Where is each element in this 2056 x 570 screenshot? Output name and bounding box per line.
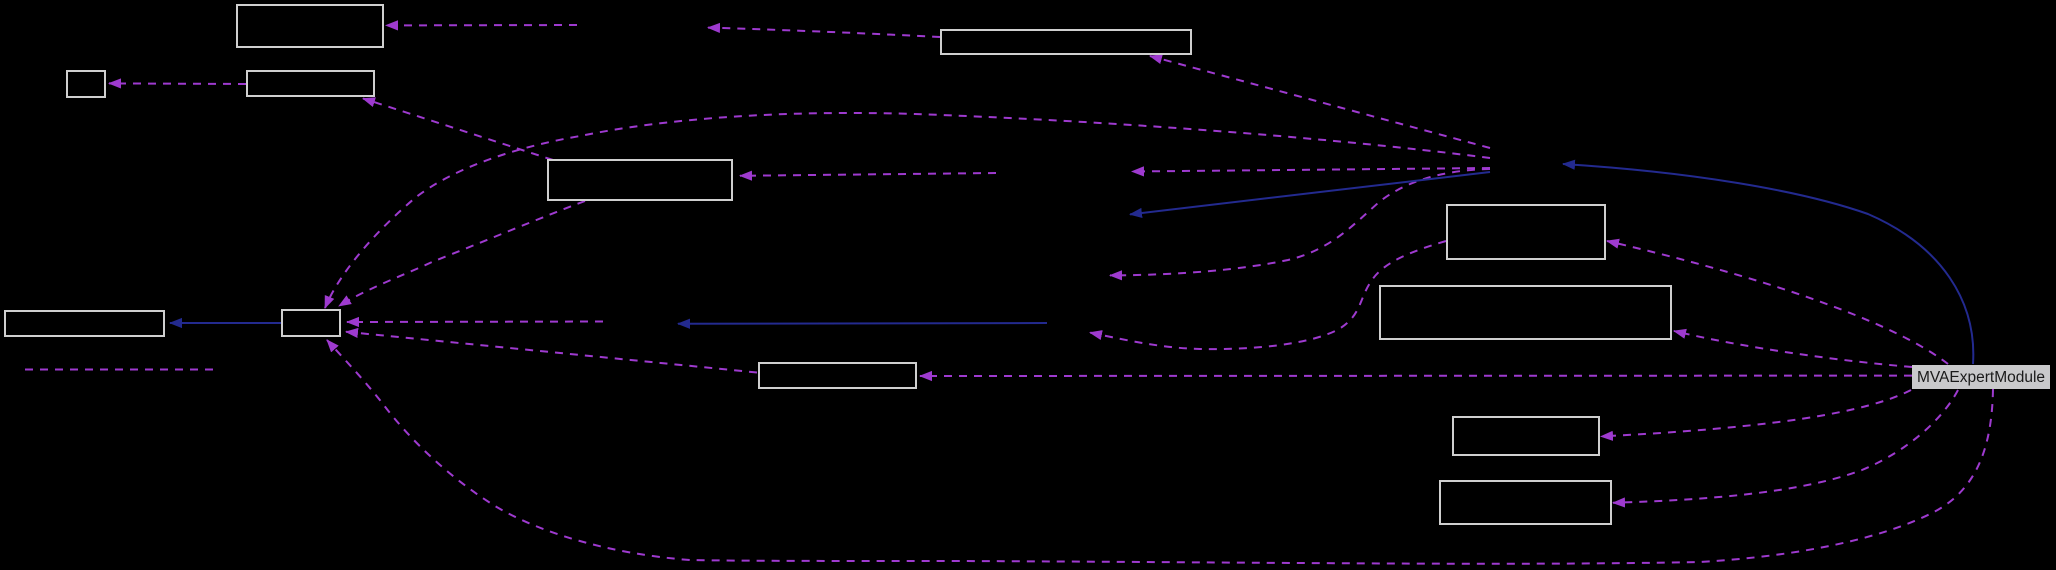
svg-text:MVAExpertModule: MVAExpertModule [1917,369,2045,386]
